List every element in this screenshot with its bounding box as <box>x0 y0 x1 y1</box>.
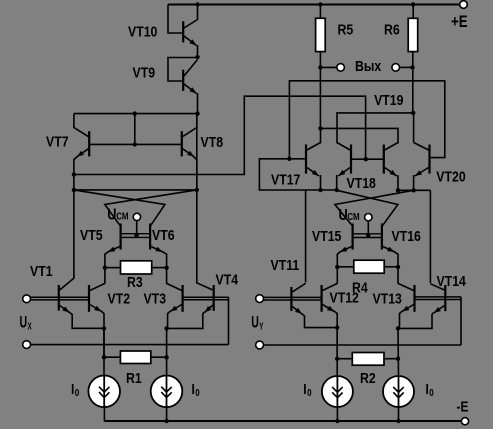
svg-text:0: 0 <box>429 387 433 398</box>
node VT18 VT19 bases feed <box>364 157 368 161</box>
label Uy <box>251 312 263 332</box>
label VT11 <box>271 257 300 273</box>
wire VT13-VT14 base line <box>416 296 462 298</box>
wire VT7 emitter <box>74 157 77 190</box>
svg-text:VT8: VT8 <box>201 134 224 150</box>
wire R5 stem top <box>319 5 321 19</box>
transistor VT12 <box>321 285 323 312</box>
transistor VT16 <box>381 224 383 250</box>
label UCM2 <box>339 207 360 225</box>
wire R4 right <box>384 266 398 268</box>
node rail I0 fourth <box>396 419 400 423</box>
svg-text:0: 0 <box>75 387 79 398</box>
svg-text:VT3: VT3 <box>144 290 167 306</box>
current source I0 first <box>88 376 120 408</box>
node R1 right <box>164 355 168 359</box>
wire R4 left <box>337 266 353 268</box>
node VT20 emitter <box>411 188 415 192</box>
svg-text:Вых: Вых <box>355 58 382 74</box>
wire R5 stem down <box>319 52 321 129</box>
wire P1 path <box>74 96 366 174</box>
node R3 right <box>164 266 168 270</box>
wire VT3 emitter <box>167 311 171 328</box>
label VT17 <box>271 171 300 187</box>
svg-text:I: I <box>192 381 195 398</box>
wire VT7 collector corner <box>73 114 75 129</box>
svg-text:СМ: СМ <box>347 211 359 222</box>
transistor VT10 <box>182 21 184 42</box>
wire R2 right <box>384 358 398 360</box>
wire VT3 emitter down <box>166 328 168 376</box>
label +E <box>451 12 468 31</box>
label VT7 <box>46 134 69 150</box>
wire VT13 collector <box>397 267 399 284</box>
transistor VT4 <box>213 285 215 311</box>
svg-text:I: I <box>71 381 74 398</box>
node R6 output tap <box>410 65 414 69</box>
wire VT9 emitter <box>197 93 199 114</box>
wire -E rail <box>104 420 461 422</box>
wire mid vertical to bases <box>134 114 136 145</box>
wire VT20 emitter <box>413 175 415 190</box>
node VT1 VT2 emitters <box>102 326 106 330</box>
label R6 <box>384 22 400 38</box>
label VT2 <box>108 290 131 306</box>
svg-text:VT14: VT14 <box>437 273 467 289</box>
label VT20 <box>436 169 465 185</box>
wire VT1 collector <box>73 190 75 279</box>
wire right cross diagonal 1 <box>337 190 398 226</box>
node VT9 collector junction <box>195 55 199 59</box>
label VT4 <box>216 271 239 287</box>
node VT7 VT8 collector line right <box>195 111 199 115</box>
svg-text:U: U <box>20 312 28 331</box>
wire cross diagonal right-down <box>105 190 197 226</box>
transistor VT7 <box>88 131 90 156</box>
label Ux <box>20 312 32 332</box>
svg-text:R5: R5 <box>338 22 354 38</box>
wire VT1 emitter <box>69 312 104 328</box>
node VT17 emitter <box>318 188 322 192</box>
resistor R4 <box>354 260 384 273</box>
wire VT2 emitter down <box>103 328 105 376</box>
wire UCM1 to bases <box>136 221 138 236</box>
svg-text:VT16: VT16 <box>392 228 422 244</box>
wire VT16 emitter <box>394 252 398 267</box>
node R5 output tap <box>318 65 322 69</box>
transistor VT1 <box>58 285 60 311</box>
wire VT15-VT16 base double line <box>354 233 382 235</box>
transistor VT14 <box>444 285 446 311</box>
label VT19 <box>374 92 404 108</box>
wire to left output terminal <box>320 66 336 68</box>
terminal Ux upper <box>23 295 31 303</box>
label -E <box>457 398 469 415</box>
wire Uy lower line <box>264 344 462 346</box>
svg-text:VT13: VT13 <box>373 291 403 307</box>
terminal -E <box>461 418 468 425</box>
svg-text:VT5: VT5 <box>80 227 103 243</box>
wire VT3 collector <box>166 268 168 284</box>
label VT8 <box>201 134 224 150</box>
wire UCM2 to bases <box>367 221 369 236</box>
resistor R3 <box>121 261 152 274</box>
wire R2 left <box>337 358 352 360</box>
transistor VT13 <box>413 285 415 312</box>
wire VT15 emitter <box>337 252 340 267</box>
svg-text:VT7: VT7 <box>46 134 69 150</box>
node VT19 emitter <box>396 188 400 192</box>
resistor R1 <box>120 351 150 364</box>
wire +E rail <box>168 4 460 6</box>
terminal output right <box>392 64 400 72</box>
wire I0 fourth to rail <box>398 405 400 421</box>
wire VT2 collector <box>104 268 106 284</box>
node R6 output junction <box>411 111 415 115</box>
label VT6 <box>152 227 175 243</box>
label I0 first <box>71 381 79 398</box>
wire VT4 collector <box>196 114 198 284</box>
label VT5 <box>80 227 103 243</box>
node rail I0 third <box>335 419 339 423</box>
svg-text:VT2: VT2 <box>108 290 131 306</box>
label Vyh <box>355 58 382 74</box>
label VT16 <box>392 228 422 244</box>
resistor R2 <box>352 353 384 366</box>
node R2 left <box>335 357 339 361</box>
svg-text:U: U <box>339 207 348 225</box>
node VT10 collector on rail <box>195 2 199 6</box>
label VT3 <box>144 290 167 306</box>
wire quad right emitter row <box>398 189 430 191</box>
wire VT20 collector <box>413 113 415 143</box>
node R5 output junction <box>318 126 322 130</box>
svg-text:I: I <box>303 381 306 398</box>
wire VT6 emitter <box>162 252 166 268</box>
wire VT19 collector <box>321 128 399 143</box>
svg-text:R6: R6 <box>384 22 400 38</box>
node rail I0 second <box>164 419 168 423</box>
transistor VT18 <box>350 145 352 174</box>
svg-text:U: U <box>107 206 116 224</box>
svg-text:0: 0 <box>195 387 199 398</box>
wire VT13 emitter <box>398 311 403 329</box>
resistor R5 <box>316 18 326 51</box>
wire VT10 base loop <box>168 5 182 34</box>
svg-text:X: X <box>28 320 32 332</box>
wire VT3-VT4 base line <box>184 296 229 298</box>
wire VT10 collector <box>197 5 199 21</box>
label VT18 <box>347 175 377 191</box>
wire Ux lower line <box>31 344 229 346</box>
wire VT14 emitter <box>398 313 434 329</box>
label R3 <box>127 274 143 290</box>
label UCM1 <box>107 206 128 224</box>
wire base line VT7-VT8 <box>89 143 182 145</box>
transistor VT6 <box>149 224 151 250</box>
transistor VT3 <box>182 285 184 312</box>
wire VT11 emitter <box>302 314 338 328</box>
svg-text:VT6: VT6 <box>152 227 175 243</box>
transistor VT17 <box>305 145 307 174</box>
wire R3 right <box>152 267 167 269</box>
wire VT13 emitter down <box>397 328 400 376</box>
wire VT4 emitter <box>167 312 204 328</box>
node mid collector line <box>133 111 137 115</box>
node R6 on rail <box>411 2 415 6</box>
svg-text:R2: R2 <box>360 370 376 386</box>
svg-text:VT12: VT12 <box>330 290 360 306</box>
node VT3 VT4 emitters <box>164 326 168 330</box>
node R4 right <box>396 265 400 269</box>
wire VT11 collector vertical <box>305 190 307 282</box>
wire VT8 emitter <box>193 157 196 190</box>
wire VT2 emitter <box>101 311 104 357</box>
label VT13 <box>373 291 403 307</box>
wire VT17 emitter <box>320 175 322 190</box>
wire R1 left <box>104 356 120 358</box>
wire collector line VT7-VT8 <box>74 113 198 115</box>
wire Ux upper line <box>31 296 90 298</box>
node line A right <box>195 188 199 192</box>
current source I0 second <box>151 376 183 408</box>
node base line mid <box>133 142 137 146</box>
wire R6 stem down <box>412 52 414 113</box>
wire to right output terminal <box>400 66 413 68</box>
terminal Uy lower <box>256 341 264 349</box>
transistor VT19 <box>383 145 385 174</box>
label VT10 <box>128 23 157 39</box>
svg-text:VT10: VT10 <box>128 23 157 39</box>
label R4 <box>352 279 368 295</box>
node VT11 VT12 emitters <box>335 325 339 329</box>
node VT13 VT14 emitters <box>396 326 400 330</box>
svg-text:VT18: VT18 <box>347 175 377 191</box>
label R5 <box>338 22 354 38</box>
svg-text:VT4: VT4 <box>216 271 239 287</box>
node VT15 VT16 base mid <box>366 233 370 237</box>
svg-text:I: I <box>426 381 429 398</box>
wire VT19 emitter <box>397 175 399 190</box>
svg-text:R3: R3 <box>127 274 143 290</box>
transistor VT8 <box>181 131 183 156</box>
wire VT9 base loop <box>168 58 198 82</box>
wire VT18 emitter <box>336 175 338 190</box>
resistor R6 <box>408 18 418 51</box>
transistor VT2 <box>88 285 90 312</box>
wire VT5 emitter <box>105 252 109 268</box>
svg-text:СМ: СМ <box>116 211 128 222</box>
wire VT12 collector <box>336 267 338 284</box>
wire I0 first to rail <box>103 405 105 421</box>
terminal output left <box>337 64 345 72</box>
svg-text:VT1: VT1 <box>30 263 53 279</box>
wire VT17 collector <box>320 128 322 143</box>
node R4 left <box>335 265 339 269</box>
wire VT10 emitter <box>197 45 199 57</box>
wire net1 top route <box>289 81 444 159</box>
wire R1 right <box>151 356 167 358</box>
label I0 second <box>192 381 200 398</box>
node VT17 base stub <box>287 157 291 161</box>
wire VT12 emitter down <box>336 328 338 377</box>
wire net1 lower route <box>259 159 305 190</box>
svg-text:+E: +E <box>451 12 468 31</box>
current source I0 fourth <box>383 376 414 407</box>
wire VT5-VT6 base double line <box>122 233 150 235</box>
svg-text:VT15: VT15 <box>312 228 342 244</box>
terminal UCM2 <box>365 214 372 221</box>
label VT14 <box>437 273 467 289</box>
wire I0 second to rail <box>166 405 168 421</box>
node line A left <box>72 188 76 192</box>
svg-text:VT17: VT17 <box>271 171 300 187</box>
terminal +E <box>460 1 468 9</box>
wire R6 stem top <box>412 5 414 19</box>
svg-text:VT11: VT11 <box>271 257 300 273</box>
transistor VT20 <box>428 145 430 174</box>
wire VT8 collector corner <box>196 114 198 129</box>
wire R3 left <box>105 267 121 269</box>
wire VT18-VT19 base segment <box>352 158 383 160</box>
transistor VT5 <box>119 224 121 250</box>
transistor VT9 <box>182 70 184 91</box>
node VT18 emitter <box>335 188 339 192</box>
wire Uy upper line <box>264 296 322 298</box>
wire cross diagonal left-down <box>74 190 165 226</box>
wire I0 third to rail <box>336 405 338 421</box>
terminal Ux lower <box>23 341 31 349</box>
label R1 <box>126 370 142 386</box>
terminal UCM1 <box>133 213 140 220</box>
node VT5 VT6 base mid <box>134 233 138 237</box>
current source I0 third <box>322 376 353 407</box>
node emitters line left <box>72 172 76 176</box>
wire VT18 collector <box>337 113 413 144</box>
wire right cross diagonal 2 <box>335 190 414 226</box>
svg-text:VT20: VT20 <box>436 169 465 185</box>
wire VT12 emitter <box>334 311 337 359</box>
transistor VT15 <box>352 224 354 250</box>
svg-text:R1: R1 <box>126 370 142 386</box>
svg-text:VT19: VT19 <box>374 92 404 108</box>
terminal Uy upper <box>256 295 264 303</box>
label VT15 <box>312 228 342 244</box>
node R5 on rail <box>318 2 322 6</box>
svg-text:-E: -E <box>457 398 469 415</box>
node R3 left <box>103 266 107 270</box>
wire quad left emitter row <box>306 189 337 191</box>
node R2 right <box>396 357 400 361</box>
label I0 fourth <box>426 381 434 398</box>
wire VT14 collector vertical <box>429 190 431 283</box>
svg-text:0: 0 <box>307 387 311 398</box>
label VT9 <box>133 64 156 80</box>
wire line A <box>74 189 197 191</box>
node R1 left <box>102 355 106 359</box>
transistor VT11 <box>290 287 292 311</box>
label I0 third <box>303 381 311 398</box>
label VT1 <box>30 263 53 279</box>
svg-text:U: U <box>251 312 259 331</box>
label VT12 <box>330 290 360 306</box>
svg-text:Y: Y <box>259 320 263 332</box>
svg-text:VT9: VT9 <box>133 64 156 80</box>
label R2 <box>360 370 376 386</box>
